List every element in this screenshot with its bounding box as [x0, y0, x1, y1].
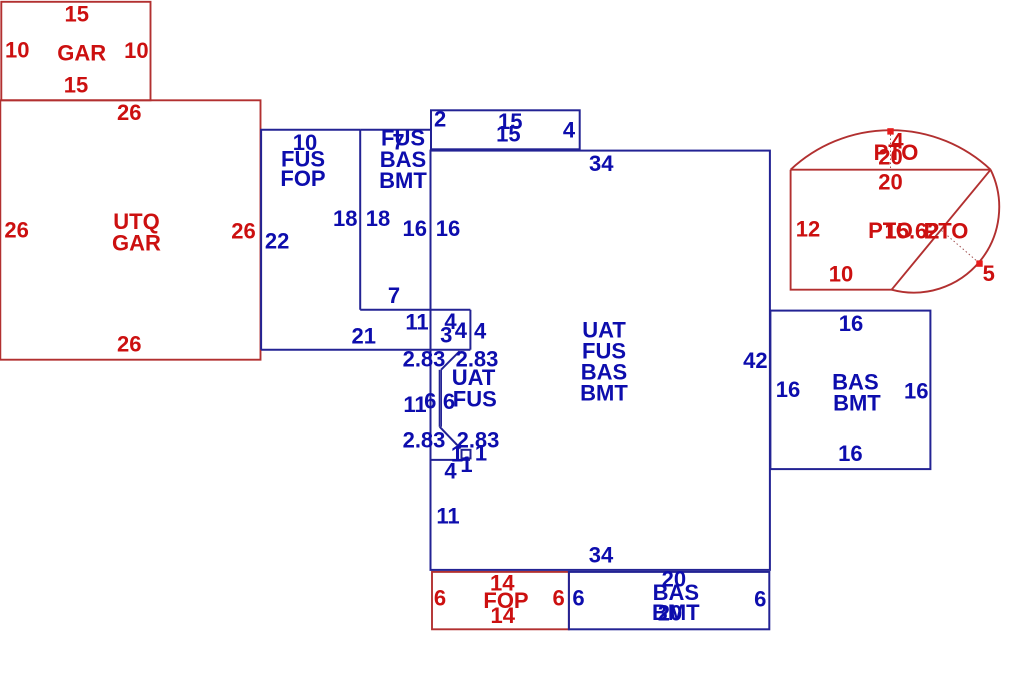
svg-text:18: 18	[366, 206, 390, 231]
svg-text:5: 5	[983, 261, 995, 286]
svg-text:26: 26	[117, 100, 141, 125]
svg-text:16: 16	[402, 216, 426, 241]
svg-text:4: 4	[563, 117, 576, 142]
svg-text:11: 11	[436, 503, 459, 528]
svg-text:BMT: BMT	[379, 168, 427, 193]
svg-text:10: 10	[829, 261, 853, 286]
svg-text:16: 16	[436, 216, 460, 241]
svg-text:BMT: BMT	[580, 380, 628, 405]
svg-text:15: 15	[64, 72, 88, 97]
svg-text:20: 20	[658, 600, 682, 625]
svg-text:6: 6	[443, 389, 455, 414]
svg-text:2.83: 2.83	[403, 346, 446, 371]
svg-text:42: 42	[743, 348, 767, 373]
svg-text:11: 11	[405, 309, 428, 334]
svg-text:1: 1	[475, 440, 487, 465]
svg-text:16: 16	[776, 377, 800, 402]
svg-text:3: 3	[440, 323, 452, 348]
svg-text:FOP: FOP	[280, 166, 325, 191]
svg-text:15: 15	[65, 1, 89, 26]
svg-text:6: 6	[572, 585, 584, 610]
svg-text:PTO: PTO	[874, 140, 919, 165]
svg-text:21: 21	[351, 323, 375, 348]
svg-text:26: 26	[231, 218, 255, 243]
svg-text:2: 2	[434, 107, 446, 132]
svg-text:6: 6	[754, 586, 766, 611]
svg-text:10: 10	[124, 38, 148, 63]
svg-text:10: 10	[5, 37, 29, 62]
svg-text:FUS: FUS	[453, 386, 497, 411]
svg-text:22: 22	[265, 228, 289, 253]
svg-text:16: 16	[904, 378, 928, 403]
svg-text:4: 4	[474, 319, 487, 344]
svg-text:34: 34	[589, 151, 614, 176]
svg-text:26: 26	[117, 331, 141, 356]
svg-text:16: 16	[839, 311, 863, 336]
svg-text:4: 4	[455, 318, 468, 343]
svg-text:15: 15	[496, 122, 520, 147]
svg-text:11: 11	[403, 392, 426, 417]
svg-text:7: 7	[388, 283, 400, 308]
svg-text:GAR: GAR	[57, 40, 106, 65]
svg-text:26: 26	[4, 217, 28, 242]
svg-text:12: 12	[796, 216, 820, 241]
svg-text:14: 14	[490, 603, 515, 628]
svg-text:6: 6	[552, 585, 564, 610]
svg-text:PTO: PTO	[924, 218, 969, 243]
svg-text:20: 20	[878, 169, 902, 194]
svg-text:2.83: 2.83	[403, 427, 446, 452]
svg-text:16: 16	[838, 441, 862, 466]
svg-text:6: 6	[424, 389, 436, 414]
svg-text:1: 1	[460, 452, 472, 477]
svg-text:GAR: GAR	[112, 230, 161, 255]
svg-text:4: 4	[444, 458, 457, 483]
svg-text:6: 6	[434, 585, 446, 610]
svg-text:34: 34	[589, 543, 614, 568]
svg-text:BMT: BMT	[833, 390, 881, 415]
svg-text:18: 18	[333, 206, 357, 231]
